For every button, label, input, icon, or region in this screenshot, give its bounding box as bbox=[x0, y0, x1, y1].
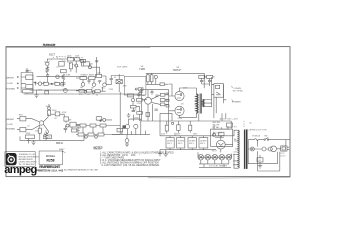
heater lamp L1 bbox=[198, 154, 204, 160]
tube V2 triode lines bbox=[43, 114, 48, 133]
resistor R25 bbox=[80, 124, 86, 127]
wire: ch1 upper path bbox=[37, 76, 86, 78]
potentiometer VR1 bbox=[60, 82, 64, 86]
potentiometer VR5 bbox=[56, 75, 59, 78]
wire: PI plate rail bbox=[140, 89, 169, 91]
svg-text:270K: 270K bbox=[44, 61, 49, 63]
svg-text:BRIGHT: BRIGHT bbox=[7, 119, 15, 121]
heater lamp L2 bbox=[205, 154, 211, 160]
svg-text:.005: .005 bbox=[97, 72, 101, 74]
border doubling top bbox=[6, 46, 150, 48]
resistor R12 bbox=[89, 77, 96, 80]
pot VR6 bbox=[103, 118, 106, 121]
svg-text:.02: .02 bbox=[54, 118, 57, 120]
svg-text:ALL DC VOLT. +-20%: ALL DC VOLT. +-20% bbox=[220, 117, 239, 120]
resistor R34 bbox=[160, 99, 165, 102]
node S1out bbox=[35, 82, 36, 83]
footswitch callout bbox=[62, 151, 66, 154]
node J bbox=[85, 136, 88, 139]
resistor R31 bbox=[26, 135, 35, 139]
wire: bottom bus bbox=[142, 120, 216, 122]
wire: AC top bbox=[248, 139, 290, 141]
svg-text:R258: R258 bbox=[46, 159, 54, 163]
plug P1 inner bbox=[282, 147, 286, 150]
filter cap C20 bbox=[199, 138, 208, 148]
svg-text:.047: .047 bbox=[258, 160, 261, 162]
wire: cathode links bbox=[146, 73, 160, 84]
resistor R20 bbox=[64, 117, 69, 121]
resistor R15 bbox=[95, 90, 100, 93]
wire: upper row bbox=[76, 125, 120, 127]
reverb transformer T3 bbox=[123, 126, 126, 129]
svg-text:SPEAKER: SPEAKER bbox=[232, 100, 242, 103]
notes list bbox=[100, 151, 174, 167]
wire: below-bus drops bbox=[167, 121, 190, 136]
wire: heater drops bbox=[199, 160, 231, 167]
wire: cap tie bbox=[259, 155, 261, 165]
capacitor C24 bbox=[213, 133, 216, 136]
svg-text:1500: 1500 bbox=[35, 130, 39, 132]
sheet border frame bbox=[6, 47, 290, 177]
grid resistor R1a bbox=[26, 75, 33, 80]
wire: PI cathode bbox=[142, 96, 153, 122]
svg-text:MODEL: MODEL bbox=[46, 154, 56, 158]
ground ch1 bbox=[34, 90, 38, 98]
wire: stage link bbox=[90, 64, 100, 74]
svg-text:ampeg: ampeg bbox=[4, 164, 36, 176]
capacitor C23 bbox=[132, 108, 135, 112]
wire: OT to jack bbox=[212, 84, 227, 118]
wire: cathode drops bbox=[20, 125, 84, 140]
ampeg circle logo bbox=[6, 153, 17, 165]
wire: grid feeds bbox=[169, 84, 175, 111]
node L bbox=[172, 122, 174, 124]
resistor R2 bbox=[44, 82, 49, 85]
resistor R6 bbox=[67, 58, 73, 61]
title block: model box bbox=[39, 151, 63, 164]
potentiometer VR4 volume bbox=[103, 83, 107, 87]
wire: cap stems bbox=[170, 136, 203, 150]
jack switch rails S1 bbox=[21, 73, 33, 93]
resistor R47 bbox=[137, 112, 143, 115]
jack J3 bbox=[17, 87, 19, 89]
wire: rect leads bbox=[214, 125, 233, 152]
ground ch2 bbox=[31, 140, 35, 144]
svg-text:2700: 2700 bbox=[38, 90, 42, 92]
svg-text:LOUD: LOUD bbox=[7, 83, 13, 85]
svg-text:450 V: 450 V bbox=[178, 143, 183, 145]
wire: ch1 ground bus bbox=[30, 89, 86, 91]
svg-text:450 V: 450 V bbox=[200, 143, 205, 145]
footswitch jack J8 bbox=[96, 117, 102, 121]
svg-text:TEL. 201 WA 5-4550: TEL. 201 WA 5-4550 bbox=[19, 163, 35, 166]
PT secondary winding bbox=[238, 130, 239, 168]
value labels ch2 bbox=[19, 106, 82, 138]
wire: plate link bbox=[47, 59, 83, 73]
wire: PT taps bbox=[216, 130, 238, 168]
wire: sw drop bbox=[215, 127, 224, 138]
wire: lower row bbox=[76, 134, 120, 136]
svg-text:6. LAST USED R47, C23, V5 ALL: 6. LAST USED R47, C23, V5 ALL READINGS N… bbox=[102, 164, 161, 167]
svg-text:250K: 250K bbox=[76, 128, 81, 130]
capacitor C13 bbox=[156, 95, 159, 96]
capacitor C1a bbox=[26, 68, 29, 73]
wire: AC bottom returns bbox=[248, 152, 280, 171]
wire: S1 out bbox=[27, 83, 35, 95]
wire: B+ top rail bbox=[146, 73, 204, 88]
svg-text:NORMAL: NORMAL bbox=[6, 87, 15, 90]
resistor R6b bbox=[81, 59, 86, 62]
node F bbox=[92, 91, 94, 93]
heater lamp L3 bbox=[212, 154, 218, 160]
capacitor C12 bbox=[151, 90, 154, 95]
resistor R16 bbox=[116, 80, 122, 84]
resistor R1 bbox=[46, 67, 49, 73]
node C bbox=[75, 64, 78, 67]
resistor R4b bbox=[59, 62, 64, 67]
potentiometer VR3 bass bbox=[92, 83, 96, 87]
resistor R45 bbox=[137, 98, 143, 101]
wire: cath link2 bbox=[164, 83, 168, 85]
wire: circles row links bbox=[248, 148, 281, 150]
capacitor C1 bbox=[46, 73, 49, 79]
capacitor C5 bbox=[98, 81, 101, 84]
capacitor C6 bbox=[110, 76, 113, 84]
svg-text:BRIGHT: BRIGHT bbox=[7, 78, 15, 80]
svg-text:100K: 100K bbox=[46, 106, 51, 108]
resistor R2b bbox=[45, 91, 49, 94]
svg-text:.01: .01 bbox=[87, 94, 90, 96]
svg-text:270K: 270K bbox=[109, 89, 114, 91]
svg-text:1M: 1M bbox=[80, 87, 83, 89]
node H bbox=[48, 107, 51, 110]
T2 primary taps bbox=[195, 96, 197, 108]
tube V4 7027A upper bbox=[175, 91, 184, 100]
wire: lower tone row bbox=[76, 87, 106, 92]
wire: long vertical coupling bbox=[141, 88, 143, 121]
value labels ch1 bbox=[26, 56, 80, 92]
jack contact bbox=[216, 92, 220, 95]
grid resistor R1b bbox=[26, 85, 33, 89]
callout curl2 bbox=[232, 100, 233, 102]
wire: jack merge bbox=[17, 119, 40, 130]
border doubling bottom bbox=[148, 176, 290, 179]
node M bbox=[154, 75, 157, 78]
resistor R38 bbox=[177, 125, 180, 131]
ground filter bbox=[164, 150, 168, 157]
svg-text:TREBLE: TREBLE bbox=[80, 75, 88, 77]
resistor R43 bbox=[160, 83, 164, 86]
grid resistor R49 bbox=[166, 99, 169, 101]
wire: fs link bbox=[102, 119, 112, 121]
resistor R28 bbox=[78, 133, 84, 136]
resistor R32 bbox=[44, 135, 52, 139]
node K bbox=[95, 136, 98, 139]
svg-text:220V: 220V bbox=[52, 110, 57, 112]
capacitor C2 bbox=[38, 82, 41, 85]
tremolo osc tube Vt1 bbox=[125, 125, 129, 129]
ground recovery bbox=[127, 113, 131, 118]
resistor R7 bbox=[75, 58, 80, 61]
wire: ch1 signal row bbox=[37, 83, 61, 85]
wire: plate to OT bbox=[180, 88, 197, 118]
resistor R9 bbox=[82, 62, 90, 66]
svg-text:22.5V: 22.5V bbox=[178, 118, 183, 120]
callout dashed pointer V1 bbox=[48, 57, 84, 68]
ground AC bbox=[258, 165, 262, 168]
resistor R36 bbox=[146, 112, 149, 116]
svg-text:Ph 2 Rev 1-63: Ph 2 Rev 1-63 bbox=[43, 45, 56, 47]
svg-text:6SN7: 6SN7 bbox=[59, 149, 65, 151]
jack J4 bbox=[20, 117, 26, 121]
svg-text:360: 360 bbox=[234, 139, 237, 141]
wire: V1b plate vertical bbox=[96, 57, 98, 77]
svg-text:.05: .05 bbox=[134, 109, 137, 111]
wire: tone row bbox=[76, 76, 106, 84]
wire: volume out bbox=[106, 76, 114, 85]
value labels tone bbox=[79, 60, 127, 97]
filter cap C18 bbox=[177, 138, 185, 148]
resistor R33 bbox=[160, 93, 165, 96]
jack J5 bbox=[20, 128, 26, 132]
wire: recovery vertical bbox=[119, 92, 121, 121]
rectifier V6 5Y3 bbox=[216, 140, 225, 149]
resistor R3 bbox=[55, 82, 60, 85]
wire: OT bottom drop bbox=[198, 114, 200, 122]
svg-text:1M: 1M bbox=[91, 87, 94, 89]
wire: sw rows bbox=[212, 129, 230, 136]
wire: recovery links bbox=[133, 97, 147, 121]
wire: screen row bbox=[202, 77, 215, 86]
capacitor C26 bbox=[95, 61, 98, 62]
svg-text:6.8M: 6.8M bbox=[66, 74, 71, 76]
resistor R10 bbox=[96, 74, 102, 77]
svg-text:.01: .01 bbox=[96, 95, 99, 97]
wire: ch2 inter bbox=[64, 114, 80, 132]
node A bbox=[46, 62, 49, 65]
node N bbox=[131, 99, 134, 102]
svg-text:117 VAC: 117 VAC bbox=[212, 126, 220, 129]
wire: to reverb bbox=[115, 74, 125, 92]
plug P1 outer bbox=[281, 146, 287, 151]
output transformer T2 core bbox=[200, 94, 201, 114]
capacitor C14 bbox=[155, 109, 158, 110]
filter cap C17 bbox=[166, 138, 174, 148]
resistor R27 bbox=[100, 124, 106, 127]
tube V3 envelope bbox=[145, 97, 152, 104]
resistor R5 zigzag bbox=[62, 74, 65, 80]
resistor R13 bbox=[79, 89, 84, 92]
wire: PI links bbox=[148, 90, 169, 121]
svg-text:REVERBEROCKET: REVERBEROCKET bbox=[39, 165, 60, 169]
resistor R21 bbox=[70, 122, 76, 127]
svg-text:470K: 470K bbox=[134, 118, 139, 120]
svg-text:6BK11: 6BK11 bbox=[56, 142, 64, 145]
resistor R24 bbox=[38, 128, 41, 133]
node G bbox=[135, 88, 137, 90]
node FS bbox=[100, 120, 102, 122]
resistor R44 bbox=[127, 94, 133, 97]
svg-text:PILOT: PILOT bbox=[212, 151, 217, 153]
cathode resistor R40 bbox=[150, 75, 153, 82]
resistor R26 bbox=[90, 124, 96, 127]
filter cap C19 bbox=[188, 138, 197, 148]
rectifier enclosure box bbox=[211, 129, 233, 146]
resistor R38b bbox=[189, 125, 192, 130]
PT core bar 1 bbox=[244, 130, 246, 169]
logo box fine print bbox=[19, 153, 40, 166]
resistor R29 bbox=[88, 133, 94, 136]
capacitor C9 bbox=[117, 128, 123, 132]
wire: node A drop bbox=[46, 67, 48, 83]
resistor R14 bbox=[87, 89, 92, 92]
resistor R11 bbox=[80, 77, 87, 80]
speaker jack box J6 bbox=[214, 84, 224, 98]
wire: screen feed vertical bbox=[168, 90, 170, 125]
svg-text:BASS: BASS bbox=[89, 74, 95, 77]
svg-text:.02: .02 bbox=[43, 82, 46, 84]
wire: row verticals bbox=[83, 121, 120, 134]
svg-text:ALL READINGS TAKEN AT 117 V AC: ALL READINGS TAKEN AT 117 V AC LINE bbox=[64, 168, 99, 171]
resistor R8 bbox=[69, 63, 72, 69]
pilot lamp P2 bbox=[250, 147, 254, 151]
switch SW1 bbox=[264, 139, 265, 140]
svg-text:LOUD: LOUD bbox=[7, 124, 13, 126]
svg-text:V5 5Y3GT: V5 5Y3GT bbox=[214, 133, 223, 135]
mech link dashed bbox=[243, 121, 245, 127]
resistor R46 bbox=[130, 105, 136, 108]
grid resistor R1c bbox=[23, 90, 33, 93]
heater lamp L4 bbox=[219, 154, 225, 160]
plug prongs bbox=[287, 147, 289, 149]
resistor R19 bbox=[55, 112, 60, 116]
resistor R37 bbox=[165, 125, 168, 131]
capacitor C8 bbox=[64, 126, 68, 133]
switch box SW3 bbox=[227, 123, 233, 127]
svg-text:4 OHMS: 4 OHMS bbox=[234, 88, 242, 90]
resistor R17 bbox=[138, 88, 143, 91]
capacitor C15 bbox=[200, 78, 203, 84]
resistor R18 bbox=[48, 110, 51, 115]
wire: heater bus bbox=[198, 152, 232, 157]
svg-text:7199: 7199 bbox=[139, 67, 145, 71]
svg-text:VOL: VOL bbox=[101, 87, 105, 89]
resistor R35 bbox=[160, 103, 165, 106]
svg-text:PRINTED IN U.S.A. 4-63: PRINTED IN U.S.A. 4-63 bbox=[36, 169, 64, 173]
wire: B+ mid rail bbox=[24, 93, 142, 95]
ground filter2 bbox=[158, 121, 162, 156]
capacitor C3 bbox=[61, 80, 65, 86]
output transformer T2 secondary bbox=[203, 100, 204, 107]
wire: plate row ch2 bbox=[49, 104, 64, 114]
bias loop bbox=[160, 113, 172, 121]
resistor R30 bbox=[98, 133, 104, 136]
wire: bus ext bbox=[216, 113, 231, 129]
svg-text:220K: 220K bbox=[79, 60, 84, 62]
resistor R4 bbox=[61, 69, 67, 72]
wire: comb bus bbox=[112, 134, 150, 136]
capacitor C4 bbox=[88, 81, 91, 84]
tube V2 grid node bbox=[39, 121, 43, 125]
svg-text:NOTES: NOTES bbox=[94, 145, 103, 149]
tube V5 7027A lower bbox=[175, 106, 184, 115]
svg-text:450 V: 450 V bbox=[189, 143, 194, 145]
resistor R48 bbox=[219, 132, 224, 135]
node I bbox=[66, 124, 69, 127]
grid resistor R50 bbox=[166, 105, 169, 107]
svg-text:10M: 10M bbox=[123, 86, 127, 88]
svg-text:470: 470 bbox=[181, 103, 184, 105]
svg-text:SW: SW bbox=[264, 135, 267, 137]
reverb unit box bbox=[124, 76, 146, 95]
PT core bar 2 bbox=[246, 130, 248, 169]
svg-text:100K: 100K bbox=[67, 56, 72, 58]
capacitor C7 bbox=[139, 92, 143, 93]
svg-text:2.2M: 2.2M bbox=[137, 103, 142, 105]
svg-text:.02: .02 bbox=[113, 77, 116, 79]
svg-text:500K: 500K bbox=[63, 89, 68, 91]
svg-text:1M: 1M bbox=[69, 119, 72, 121]
jack J1 bbox=[17, 76, 19, 78]
jack J2 bbox=[17, 82, 19, 84]
capacitor C25 bbox=[166, 93, 169, 94]
svg-text:6SC7: 6SC7 bbox=[49, 54, 56, 57]
tremolo osc tube Vt2 bbox=[134, 124, 138, 128]
cathode resistor R39 bbox=[147, 75, 150, 82]
svg-text:6.3V TO ALL HEATERS: 6.3V TO ALL HEATERS bbox=[209, 165, 228, 168]
ground comb bbox=[125, 139, 129, 143]
wire: ch2 bottom bus bbox=[20, 139, 84, 141]
wire: filter top bus bbox=[160, 135, 216, 137]
title block: ampeg logo box bbox=[5, 152, 35, 167]
heater lamp L5 bbox=[226, 154, 232, 160]
resistor R23 zigzag bbox=[45, 133, 48, 139]
resistor R22 bbox=[72, 129, 77, 132]
node D bbox=[89, 66, 92, 69]
svg-text:AC INTERLOCK P.T. PRI: AC INTERLOCK P.T. PRI bbox=[246, 129, 267, 132]
node B2 bbox=[64, 89, 68, 93]
wire: secondary taps bbox=[203, 77, 214, 107]
svg-text:470K 1MEG: 470K 1MEG bbox=[117, 67, 128, 69]
screen resistor R41 bbox=[199, 75, 205, 78]
callout curl bbox=[231, 86, 232, 88]
pilot big P3 bbox=[271, 146, 277, 152]
wire: AC verticals bbox=[248, 140, 286, 164]
svg-text:FUSE 2A: FUSE 2A bbox=[252, 134, 260, 137]
svg-text:.02: .02 bbox=[56, 66, 59, 68]
svg-text:7027A*: 7027A* bbox=[173, 68, 182, 72]
death cap C21 bbox=[257, 158, 263, 162]
wire: filter bottom bus bbox=[160, 149, 216, 151]
output transformer T2 primary bbox=[196, 94, 198, 113]
svg-text:450 V: 450 V bbox=[167, 143, 172, 145]
node B bbox=[51, 83, 52, 84]
aux circle D bbox=[268, 147, 272, 151]
svg-text:NORMAL: NORMAL bbox=[6, 128, 15, 131]
speaker jack inner bbox=[216, 85, 220, 88]
potentiometer VR2 treble bbox=[81, 83, 85, 87]
aux circle C bbox=[262, 147, 266, 151]
capacitor C16 bbox=[208, 78, 211, 84]
svg-text:220K: 220K bbox=[75, 56, 80, 58]
fuse F1 bbox=[254, 139, 258, 141]
screen resistor R42 bbox=[207, 75, 213, 78]
capacitor C22 bbox=[137, 92, 140, 98]
svg-text:470K: 470K bbox=[62, 112, 67, 114]
svg-text:EXT. SPKR.: EXT. SPKR. bbox=[233, 91, 244, 93]
svg-text:.02: .02 bbox=[27, 125, 30, 127]
svg-text:60 CY: 60 CY bbox=[280, 155, 286, 157]
